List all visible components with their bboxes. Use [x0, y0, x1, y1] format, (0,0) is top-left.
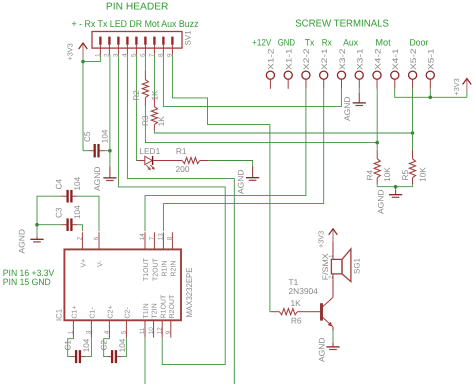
wire X4-1 to +3V3	[395, 89, 467, 98]
svg-text:T2IN: T2IN	[152, 303, 159, 318]
capacitor C2	[100, 338, 127, 364]
svg-text:3: 3	[86, 330, 93, 334]
svg-text:SV1: SV1	[184, 30, 193, 46]
pin IC1-8 R2IN	[167, 232, 178, 276]
pin SV1-1	[95, 37, 102, 57]
speaker SG1	[321, 249, 362, 282]
resistor R2	[132, 55, 160, 107]
terminal X3-1	[355, 48, 364, 89]
svg-text:8: 8	[167, 236, 174, 240]
resistor R4	[366, 143, 392, 185]
wire pin2 down	[109, 55, 111, 167]
wire R1 to AGND	[209, 161, 253, 167]
pin SV1-6	[140, 37, 147, 57]
svg-text:+12V: +12V	[252, 38, 272, 48]
svg-text:Tx: Tx	[305, 38, 315, 48]
text terminal group label Mot	[375, 38, 391, 48]
pin IC1-1 C1+	[68, 305, 79, 337]
svg-text:C2: C2	[100, 340, 109, 351]
text terminal group label Door	[410, 38, 429, 48]
wire C4 right to V-	[78, 196, 99, 231]
svg-text:C1+: C1+	[72, 305, 79, 318]
pin IC1-5 C2-	[121, 307, 132, 338]
wire Door terminal down	[412, 89, 414, 133]
wire Rx terminal to R1IN	[163, 89, 323, 232]
connector SV1 pin header body	[92, 30, 193, 48]
svg-text:104: 104	[82, 338, 91, 352]
svg-text:9: 9	[165, 330, 172, 334]
svg-text:6: 6	[93, 236, 100, 240]
ground AGND (X3-1)	[343, 89, 366, 121]
svg-text:V+: V+	[81, 259, 88, 268]
svg-text:10K: 10K	[383, 167, 392, 182]
terminal X4-1	[391, 48, 400, 89]
wire C3 right to V+	[78, 225, 83, 232]
svg-text:1K: 1K	[157, 116, 166, 127]
svg-text:X1-1: X1-1	[284, 48, 293, 70]
pin SV1-8	[158, 37, 165, 57]
svg-text:R2: R2	[132, 90, 141, 101]
ground AGND (R4/R5)	[376, 189, 402, 214]
svg-text:X3-2: X3-2	[338, 48, 347, 70]
pin SV1-5	[131, 37, 138, 57]
svg-text:T1OUT: T1OUT	[143, 257, 150, 281]
svg-text:AGND: AGND	[318, 337, 327, 362]
svg-text:AGND: AGND	[17, 229, 26, 254]
resistor R3	[141, 55, 166, 131]
terminal X4-2	[373, 48, 382, 89]
svg-text:Door: Door	[410, 38, 429, 48]
ground AGND (LED/R1)	[237, 166, 260, 194]
svg-text:R1IN: R1IN	[162, 261, 169, 277]
pin IC1-2 V+	[77, 232, 88, 267]
svg-text:C1: C1	[64, 340, 73, 351]
svg-text:SCREW TERMINALS: SCREW TERMINALS	[295, 19, 389, 30]
svg-text:PIN 15 GND: PIN 15 GND	[3, 277, 51, 287]
svg-text:T2OUT: T2OUT	[153, 257, 160, 281]
wire Tx terminal to T1OUT	[145, 89, 306, 232]
pin SV1-2	[104, 37, 111, 57]
wire Mot terminal down	[376, 89, 378, 143]
svg-text:2N3904: 2N3904	[289, 286, 319, 296]
junction C5/pin2	[108, 149, 112, 153]
svg-text:104: 104	[118, 338, 127, 352]
svg-text:AGND: AGND	[376, 189, 385, 214]
ground AGND (header)	[93, 166, 117, 191]
pin SV1-3	[113, 37, 120, 57]
svg-text:11: 11	[139, 327, 146, 334]
svg-text:Aux: Aux	[343, 38, 358, 48]
terminal X2-1	[320, 48, 329, 89]
pin IC1-9 R2OUT	[165, 294, 176, 338]
svg-text:R2OUT: R2OUT	[169, 294, 176, 318]
svg-text:MAX3232EPE: MAX3232EPE	[184, 267, 194, 317]
svg-text:1K: 1K	[290, 298, 301, 308]
resistor R5	[401, 133, 428, 184]
svg-text:C2+: C2+	[108, 305, 115, 318]
svg-text:IC1: IC1	[55, 309, 64, 321]
svg-text:14: 14	[139, 233, 146, 241]
pin IC1-13 R1IN	[158, 232, 169, 276]
capacitor C4	[54, 176, 81, 202]
svg-text:R2IN: R2IN	[171, 261, 178, 277]
svg-text:X5-2: X5-2	[409, 48, 418, 70]
junction +3V3 node	[81, 60, 85, 64]
svg-text:R4: R4	[366, 169, 375, 180]
svg-text:AGND: AGND	[343, 96, 352, 121]
junction X5-1 node	[429, 96, 433, 100]
wire R2 to Mot line	[145, 107, 377, 143]
svg-text:C2-: C2-	[125, 307, 132, 319]
svg-text:C3: C3	[54, 207, 63, 218]
svg-text:4: 4	[104, 330, 111, 334]
transistor T1 2N3904	[289, 277, 334, 331]
text terminal group label +12V	[252, 38, 272, 48]
pin IC1-11 T1IN	[139, 303, 150, 337]
terminal X5-2	[409, 48, 418, 89]
ground AGND (T1)	[318, 331, 340, 362]
wire pin3 to R1OUT	[118, 55, 225, 365]
svg-text:GND: GND	[278, 38, 296, 48]
ground AGND (C3/C4)	[17, 229, 43, 254]
svg-text:C4: C4	[54, 179, 63, 190]
svg-text:10: 10	[148, 327, 155, 335]
svg-text:13: 13	[158, 233, 165, 241]
pin SV1-7	[149, 37, 156, 57]
svg-text:X4-1: X4-1	[391, 48, 400, 70]
svg-text:7: 7	[149, 236, 156, 240]
text terminal group label Rx	[322, 38, 332, 48]
svg-text:R1: R1	[176, 146, 187, 156]
svg-text:V-: V-	[97, 260, 104, 267]
junction C3/C4 ground node	[35, 223, 39, 227]
supply +3V3 (header)	[65, 43, 87, 61]
junction Mot/R2/R4	[375, 141, 379, 145]
pin IC1-4 C2+	[104, 305, 115, 337]
wire T1IN down off-page	[144, 338, 146, 384]
svg-text:F/SMX: F/SMX	[321, 253, 330, 281]
pin IC1-14 T1OUT	[139, 232, 150, 281]
svg-text:+3V3: +3V3	[317, 231, 326, 248]
svg-text:X1-2: X1-2	[267, 48, 276, 70]
svg-text:200: 200	[176, 164, 190, 174]
svg-text:R1OUT: R1OUT	[160, 294, 167, 318]
wire C5 to pin2 net	[105, 150, 110, 152]
LED LED1	[137, 146, 182, 170]
svg-text:X5-1: X5-1	[427, 48, 436, 70]
text terminal group label Tx	[305, 38, 315, 48]
svg-text:X2-2: X2-2	[302, 48, 311, 70]
svg-text:AGND: AGND	[93, 166, 102, 191]
resistor R6	[271, 298, 306, 326]
supply +3V3 (terminals)	[452, 78, 471, 97]
pin IC1-10 T2IN	[148, 303, 159, 337]
svg-text:12: 12	[156, 327, 163, 335]
pin SV1-4	[122, 37, 129, 57]
capacitor C1	[64, 338, 92, 364]
pin IC1-6 V-	[93, 232, 104, 267]
text header caption	[72, 19, 199, 30]
pin IC1-12 R1OUT	[156, 294, 167, 338]
svg-text:SG1: SG1	[353, 257, 362, 274]
wire pin5 to LED1	[136, 55, 137, 161]
capacitor C5	[83, 129, 110, 157]
svg-text:T1IN: T1IN	[143, 303, 150, 318]
svg-text:Mot: Mot	[375, 38, 391, 48]
svg-text:X3-1: X3-1	[356, 48, 365, 70]
svg-text:C1-: C1-	[90, 307, 97, 319]
terminal X1-2	[266, 48, 275, 89]
wire C3/C4 left rail	[37, 196, 62, 237]
svg-text:+3V3: +3V3	[452, 78, 461, 95]
svg-text:LED1: LED1	[139, 146, 160, 156]
pin IC1-3 C1-	[86, 307, 97, 338]
svg-text:R5: R5	[401, 169, 410, 180]
svg-text:+ - Rx Tx LED DR Mot Aux Buzz: + - Rx Tx LED DR Mot Aux Buzz	[72, 19, 199, 30]
pin SV1-9	[167, 37, 174, 57]
wire R3 to Door line	[154, 131, 412, 133]
wire R4/R5 commons	[377, 184, 412, 189]
IC IC1 MAX3232EPE body	[55, 249, 194, 321]
wire T1 collector to SG1	[332, 280, 334, 289]
svg-text:C5: C5	[83, 131, 92, 142]
text title SCREW TERMINALS	[295, 19, 389, 30]
svg-text:PIN HEADER: PIN HEADER	[106, 1, 169, 12]
wire R6 to T1 base	[306, 311, 320, 313]
svg-text:+3V3: +3V3	[65, 43, 74, 60]
junction Door/R3/R5	[411, 131, 415, 135]
resistor R1	[176, 146, 209, 174]
wire X5-1 down	[429, 89, 431, 98]
svg-text:104: 104	[101, 129, 110, 143]
wire +3V3 down to C5	[83, 62, 89, 151]
svg-text:X2-1: X2-1	[320, 48, 329, 70]
text title PIN HEADER	[106, 1, 169, 12]
wire pin8 to Aux terminal	[163, 55, 341, 107]
svg-text:104: 104	[73, 205, 82, 219]
text note PIN 15 GND	[3, 277, 51, 287]
wire +3V3 to pin1	[83, 54, 100, 61]
svg-text:R6: R6	[291, 316, 302, 326]
svg-text:AGND: AGND	[237, 169, 246, 194]
terminal X2-2	[302, 48, 311, 89]
terminal X1-1	[284, 48, 293, 89]
pin IC1-7 T2OUT	[149, 232, 160, 281]
svg-text:R3: R3	[141, 115, 150, 126]
text note PIN 16 +3.3V	[3, 268, 55, 278]
svg-text:Rx: Rx	[322, 38, 332, 48]
wire pin4 down off-page	[127, 55, 234, 384]
wire pin9 to R6 (Buzz)	[172, 55, 271, 312]
text terminal group label Aux	[343, 38, 358, 48]
svg-text:104: 104	[73, 176, 82, 190]
terminal X5-1	[426, 48, 435, 89]
supply +3V3 (SG1)	[317, 229, 338, 254]
terminal X3-2	[337, 48, 346, 89]
svg-text:X4-2: X4-2	[373, 48, 382, 70]
svg-text:2: 2	[77, 236, 84, 240]
junction R4/R5 ground node	[394, 185, 398, 189]
text terminal group label GND	[278, 38, 296, 48]
svg-text:1: 1	[68, 330, 75, 334]
svg-text:10K: 10K	[418, 167, 427, 182]
svg-text:5: 5	[121, 330, 128, 334]
capacitor C3	[54, 205, 81, 231]
